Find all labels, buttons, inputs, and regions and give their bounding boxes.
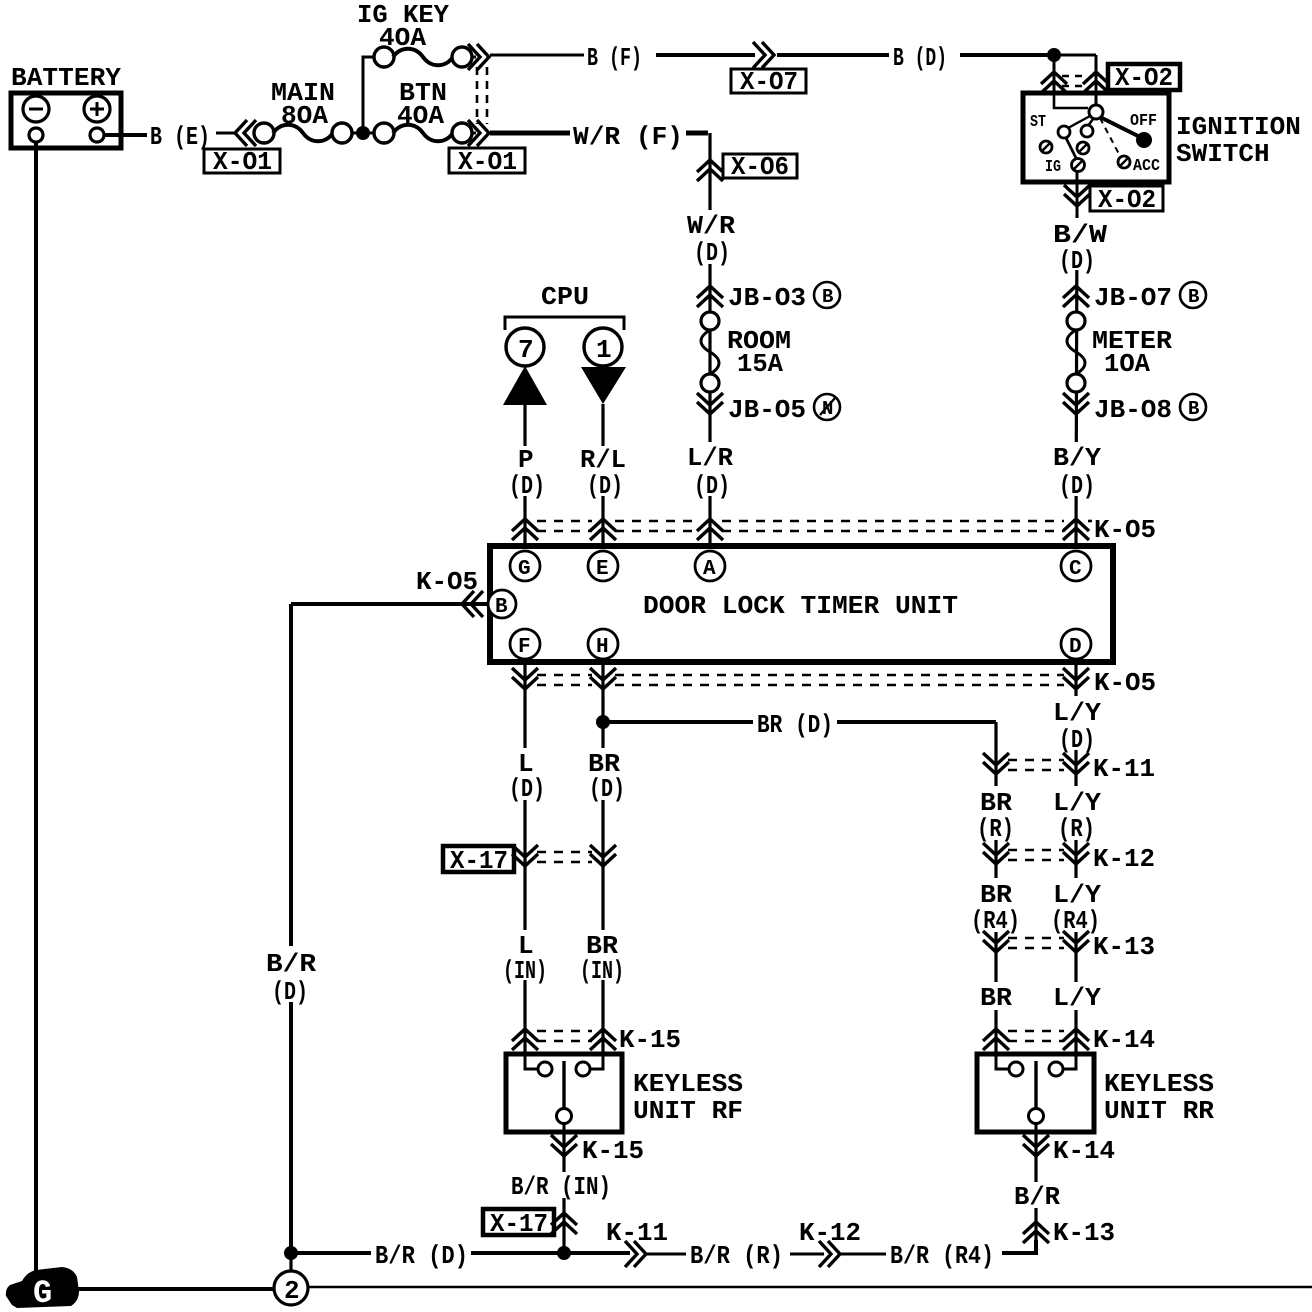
label P (D) [506,445,545,501]
label BR (IN) [578,930,626,986]
connector chevrons K-05 bottom [512,668,538,689]
wire BR(D) horizontal [603,720,996,724]
svg-text:IGNITION: IGNITION [1176,112,1301,142]
connector chevron IG KEY out [472,56,476,59]
terminal E [588,551,618,581]
terminal G [510,551,540,581]
terminal H [588,629,618,659]
svg-text:(R): (R) [1058,814,1095,844]
svg-text:K-13: K-13 [1093,932,1155,962]
connector chevron K-13 bottom [1023,1222,1049,1243]
connector label X-17 mid [443,846,514,876]
svg-text:K-14: K-14 [1053,1136,1115,1166]
svg-text:(D): (D) [509,471,545,501]
svg-text:X-O1: X-O1 [458,147,517,177]
keyless RR internals [996,1054,1076,1132]
wire into terminal B [291,602,487,606]
wire B(E) [104,133,147,137]
svg-text:IG: IG [1045,158,1061,177]
svg-text:B: B [1188,286,1199,308]
svg-text:(D): (D) [587,471,623,501]
wire BR column H-terminal down [601,662,604,1054]
fuse METER 10A [1067,312,1172,392]
connector label X-02 lower [1090,185,1163,215]
label L (IN) [500,930,550,986]
connector label X-07 [731,67,806,97]
CPU pin 1 [584,328,622,366]
wire P(D) [523,405,526,545]
connector JB-03 [697,286,723,307]
svg-text:K-15: K-15 [582,1136,644,1166]
svg-text:X-O6: X-O6 [731,152,789,182]
svg-text:(IN): (IN) [580,956,624,986]
svg-text:X-17: X-17 [450,846,508,876]
fuse MAIN 80A [254,78,352,143]
connector JB-07 [1063,286,1089,307]
label B/R (D) left [263,946,321,1007]
ground bus left [60,1287,274,1291]
svg-text:KEYLESS: KEYLESS [633,1069,743,1099]
wire ignition out B/W [1076,171,1079,215]
connector chevrons K-15 top [512,1029,538,1050]
node junction MAIN/BTN [352,132,376,135]
connector chevron X-01 right [472,132,476,135]
svg-text:X-O2: X-O2 [1098,185,1156,215]
connector label X-06 [723,152,797,182]
bottom row: wire B/R(D) [291,1251,564,1255]
CPU pin 7 [506,328,544,366]
label R/L (D) [578,445,630,501]
svg-text:K-O5: K-O5 [416,567,478,597]
connector dashed link vertical [477,67,487,124]
connector label X-17 bottom [483,1209,554,1239]
terminal F [510,629,540,659]
label B/R (D) bottom [371,1241,471,1271]
wire L/Y column D-terminal down [1074,662,1077,1054]
connector chevron K-11 bottom [625,1241,646,1267]
svg-text:X-O2: X-O2 [1115,63,1173,93]
svg-text:JB-O3: JB-O3 [728,283,806,313]
connector chevron X-06 [697,160,723,181]
node junction left bottom [284,1246,298,1260]
wire B(D) [777,53,889,57]
connector chevrons K-05 top [512,519,538,540]
svg-text:B/R (IN): B/R (IN) [511,1172,611,1202]
svg-text:(R4): (R4) [971,906,1020,936]
svg-text:G: G [518,558,531,581]
wire up to IG KEY fuse [363,57,374,133]
svg-text:B (D): B (D) [893,43,947,73]
svg-text:B/R (R4): B/R (R4) [890,1241,994,1271]
svg-text:B/R: B/R [1014,1182,1060,1212]
connector row K-11 [983,753,1009,774]
svg-text:(D): (D) [509,774,545,804]
arrow down from pin 1 [581,367,626,404]
connector JB-08 [1063,393,1089,414]
svg-text:B: B [495,596,508,619]
svg-text:K-12: K-12 [1093,844,1155,874]
connector chevron X-07 [753,42,774,68]
label L/Y (R) [1050,786,1104,844]
svg-text:BATTERY: BATTERY [11,63,121,93]
label B/W (D) [1050,218,1107,276]
wire B(F) [490,54,584,57]
svg-text:(IN): (IN) [503,956,547,986]
fuse ROOM 15A [701,312,791,392]
wire to B/R (R4) [841,1253,886,1256]
connector chevrons X-17 mid [512,845,538,866]
svg-text:C: C [1069,558,1082,581]
svg-text:OFF: OFF [1130,112,1157,131]
CPU bracket [505,317,624,330]
wire to K-12 [790,1253,824,1256]
svg-text:DOOR LOCK TIMER UNIT: DOOR LOCK TIMER UNIT [643,591,958,621]
keyless unit RF box [506,1054,743,1132]
label W/R (D) [684,210,738,268]
svg-text:JB-O5: JB-O5 [728,395,806,425]
svg-text:15A: 15A [737,349,783,379]
wire battery ground vertical [34,142,38,1285]
svg-text:(D): (D) [1059,725,1095,755]
connector chevron X-02 lower [1064,185,1090,206]
connector row K-05 top dashed links [537,521,1092,531]
connector JB-05 [697,393,723,414]
svg-text:UNIT RF: UNIT RF [633,1096,743,1126]
label L/Y (R4) [1046,878,1106,936]
label BR (D) column [585,748,625,804]
connector label X-01 [204,147,280,177]
svg-text:B/R (R): B/R (R) [690,1241,783,1271]
body ground symbol (car) [6,1267,79,1312]
svg-text:B/R: B/R [266,949,316,979]
wire RF out B/R(IN) [562,1132,565,1253]
label BR (D) [753,709,837,740]
svg-text:K-O5: K-O5 [1094,515,1156,545]
svg-text:(D): (D) [589,774,625,804]
label BR (R4) [968,878,1022,936]
label L/R (D) [684,442,736,501]
connector chevrons X-02 upper [1041,72,1067,93]
label B/R right [1010,1182,1062,1212]
node junction BR(D) [596,715,610,729]
terminal C [1061,551,1091,581]
svg-text:BR: BR [980,983,1012,1013]
svg-text:K-14: K-14 [1093,1025,1155,1055]
svg-text:B: B [822,286,833,308]
svg-text:L/Y: L/Y [1053,698,1101,728]
svg-text:(D): (D) [694,238,730,268]
svg-text:ACC: ACC [1133,157,1160,176]
svg-text:JB-O8: JB-O8 [1094,395,1172,425]
wire RR out B/R [1034,1132,1037,1253]
fuse IG KEY 40A [357,0,472,67]
svg-text:KEYLESS: KEYLESS [1104,1069,1214,1099]
svg-text:G: G [33,1275,52,1312]
connector chevron X-01 left [235,120,256,146]
svg-text:BR (D): BR (D) [757,710,833,740]
svg-text:D: D [1069,636,1082,659]
wire junction to ground circle [289,1253,292,1271]
svg-text:B (F): B (F) [587,43,642,73]
keyless RF internals [525,1054,603,1132]
connector chevron K-14 bottom [1023,1135,1049,1156]
wire R/L(D) [601,404,604,545]
svg-text:A: A [703,558,716,581]
svg-text:UNIT RR: UNIT RR [1104,1096,1214,1126]
svg-text:K-O5: K-O5 [1094,668,1156,698]
wire W/R(F) [490,131,570,136]
wire BR column right vertical [994,722,997,1054]
label L/Y [1050,982,1104,1013]
svg-text:(R): (R) [977,814,1014,844]
svg-text:E: E [596,558,609,581]
label B/Y (D) [1050,442,1104,501]
connector chevron K-12 bottom [819,1241,840,1267]
wire to K-11 [564,1251,630,1255]
svg-text:K-13: K-13 [1053,1218,1115,1248]
label BR (R) [974,786,1016,844]
node junction B(D) [1047,48,1061,62]
label BR [977,982,1013,1013]
svg-text:B (E): B (E) [150,122,210,152]
label L (D) [505,748,545,804]
terminal D [1061,629,1091,659]
svg-text:CPU: CPU [541,282,589,312]
connector row K-14 top [983,1029,1009,1050]
wire W/R(D) vertical [708,133,711,545]
connector chevron K-15 bottom [551,1135,577,1156]
battery [11,63,121,148]
svg-text:X-O7: X-O7 [740,67,798,97]
svg-text:B/Y: B/Y [1053,443,1101,473]
ground node 2 [274,1271,308,1306]
label B/R (IN) [507,1172,623,1202]
svg-text:W/R (F): W/R (F) [573,122,683,152]
svg-text:SWITCH: SWITCH [1176,139,1270,169]
wire corner to B/R (R4) [1002,1240,1036,1253]
connector chevron K-05 left [462,591,483,617]
door lock timer unit box [490,546,1113,662]
terminal B [488,590,516,619]
connector row K-05 bottom dashed links [537,675,1064,685]
node junction X-17 bottom [557,1246,571,1260]
svg-text:L/R: L/R [687,443,733,473]
fuse BTN 40A [374,78,472,143]
keyless unit RR box [977,1054,1214,1132]
svg-text:ST: ST [1030,113,1046,132]
svg-text:H: H [596,636,609,659]
connector row K-13 [983,931,1009,952]
svg-text:L/Y: L/Y [1053,983,1101,1013]
svg-text:2: 2 [284,1276,300,1306]
wire to B/R (R) [647,1253,686,1256]
wire B/W vertical [1076,215,1077,545]
connector label X-01 right [449,147,525,177]
svg-text:K-15: K-15 [619,1025,681,1055]
svg-text:(D): (D) [1059,246,1095,276]
svg-text:(D): (D) [1059,471,1095,501]
wire to ignition switch [1054,54,1096,57]
ignition switch internals [1030,95,1160,177]
label L/Y (D) [1050,696,1104,755]
wire left B/R(D) vertical [289,604,293,1253]
svg-text:1: 1 [596,335,612,365]
connector label X-02 upper [1108,63,1180,93]
connector chevron X-17 bottom [551,1213,577,1234]
svg-text:(D): (D) [272,977,308,1007]
svg-text:K-11: K-11 [1093,754,1155,784]
svg-text:W/R: W/R [687,211,735,241]
svg-text:X-17: X-17 [490,1209,548,1239]
wire L column F-terminal down [523,662,526,1054]
svg-text:B: B [1188,398,1199,420]
terminal A [695,551,725,581]
ground bus right [308,1286,1312,1289]
svg-text:X-O1: X-O1 [213,147,272,177]
arrow up into pin 7 [503,366,547,405]
svg-text:B/R (D): B/R (D) [375,1241,468,1271]
svg-text:7: 7 [518,335,534,365]
svg-text:(D): (D) [694,471,730,501]
svg-text:F: F [518,636,531,659]
svg-text:JB-O7: JB-O7 [1094,283,1172,313]
svg-text:1OA: 1OA [1104,349,1150,379]
connector row K-12 [983,843,1009,864]
ignition switch box [1023,93,1301,182]
